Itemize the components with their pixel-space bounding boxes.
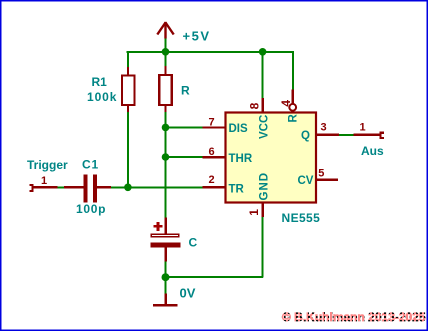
svg-text:1: 1 — [247, 209, 261, 216]
ground symbol 0V — [153, 293, 178, 306]
junction dot at VCC branch — [259, 48, 267, 56]
wire: R1 bottom vertical — [127, 106, 129, 188]
connector pin 1 Trigger — [30, 184, 58, 192]
svg-text:Aus: Aus — [361, 144, 384, 158]
svg-text:0V: 0V — [180, 286, 196, 301]
svg-text:+5V: +5V — [183, 29, 211, 44]
svg-text:R: R — [288, 114, 300, 123]
svg-text:100p: 100p — [76, 202, 106, 216]
wire: +5V rail horizontal — [127, 51, 295, 53]
pin 2 TR lead — [203, 186, 225, 188]
svg-text:GND: GND — [258, 172, 270, 201]
wire: VCC branch vertical — [262, 52, 264, 99]
wire: TR net horizontal — [56, 186, 66, 188]
wire: bottom gnd net horizontal — [165, 276, 263, 278]
svg-text:C: C — [189, 236, 198, 250]
wire: THR net horizontal — [165, 156, 203, 158]
capacitor C1 — [64, 174, 111, 202]
pin 4 inversion bubble — [289, 104, 296, 111]
wire: R1 top vertical — [127, 52, 129, 69]
pin 4 R lead — [292, 90, 294, 104]
junction dot at R1 / trigger net — [124, 184, 132, 192]
svg-text:VCC: VCC — [258, 115, 270, 139]
svg-text:6: 6 — [209, 146, 215, 158]
svg-text:Q: Q — [301, 130, 310, 142]
wire: R top vertical — [165, 38, 167, 68]
junction dot at gnd net — [162, 273, 170, 281]
wire: Q output net — [339, 134, 354, 136]
svg-text:THR: THR — [229, 153, 253, 165]
svg-text:8: 8 — [248, 102, 262, 109]
svg-text:DIS: DIS — [229, 123, 249, 135]
wire: pin4 branch vertical — [292, 52, 294, 90]
pin 1 GND lead — [262, 204, 264, 218]
wire: TR net horizontal from C1 to pin — [109, 186, 204, 188]
junction dot at +5V / R — [162, 48, 170, 56]
wire: DIS net horizontal — [165, 126, 203, 128]
supply arrow +5V — [157, 22, 173, 39]
capacitor C polarized — [150, 217, 180, 261]
connector pin 1 Aus — [354, 132, 385, 140]
svg-text:NE555: NE555 — [282, 211, 321, 225]
pin 5 CV lead — [317, 179, 338, 181]
svg-text:R1: R1 — [92, 75, 108, 89]
IC NE555 body U1 — [226, 113, 317, 203]
junction dot at THR — [162, 153, 170, 161]
svg-text:3: 3 — [321, 122, 327, 134]
wire: GND pin vertical — [262, 217, 264, 278]
svg-text:1: 1 — [360, 122, 366, 134]
svg-text:2: 2 — [209, 174, 215, 186]
svg-text:4: 4 — [279, 100, 293, 107]
svg-text:100k: 100k — [87, 90, 117, 104]
resistor R — [159, 66, 172, 112]
svg-text:1: 1 — [41, 175, 47, 187]
resistor R1 — [122, 67, 135, 112]
svg-text:TR: TR — [229, 184, 245, 196]
pin 3 Q lead — [317, 134, 339, 136]
svg-text:CV: CV — [298, 175, 314, 187]
svg-text:7: 7 — [209, 117, 215, 129]
pin 7 DIS lead — [203, 126, 225, 128]
svg-text:C1: C1 — [82, 158, 99, 172]
junction dot at DIS — [162, 124, 170, 132]
svg-text:Trigger: Trigger — [27, 158, 68, 172]
svg-text:5: 5 — [318, 167, 324, 179]
wire: C bottom to gnd junction vertical — [165, 262, 167, 295]
svg-text:R: R — [181, 84, 190, 98]
wire: R bottom vertical down to C — [165, 106, 167, 218]
pin 8 VCC lead — [262, 98, 264, 113]
svg-text:© B.Kuhlmann 2013-2025: © B.Kuhlmann 2013-2025 — [282, 310, 426, 324]
pin 6 THR lead — [203, 156, 225, 158]
